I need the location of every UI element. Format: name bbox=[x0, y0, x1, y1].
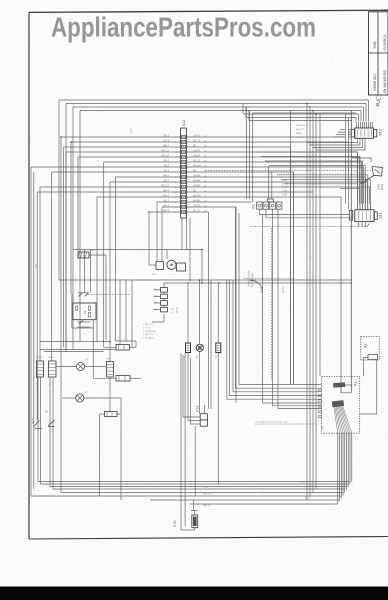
wire junction arc bbox=[250, 279, 262, 292]
svg-text:WH/BK: WH/BK bbox=[193, 180, 201, 182]
svg-text:60Hz: 60Hz bbox=[380, 183, 384, 190]
svg-text:S13: S13 bbox=[31, 419, 35, 424]
svg-text:GN 3: GN 3 bbox=[163, 169, 169, 172]
svg-text:A2: A2 bbox=[364, 344, 368, 348]
svg-text:1W 7: 1W 7 bbox=[106, 359, 112, 361]
svg-text:GN/YE: GN/YE bbox=[193, 205, 201, 207]
node junction dots bbox=[60, 103, 317, 343]
svg-text:BK/WH: BK/WH bbox=[193, 165, 201, 167]
svg-text:4 x 2: 4 x 2 bbox=[203, 486, 209, 489]
svg-text:BN/RD: BN/RD bbox=[296, 133, 303, 135]
wire mains dashed bbox=[205, 169, 371, 171]
svg-text:RD 1.5: RD 1.5 bbox=[193, 160, 201, 162]
wire X12 tail bbox=[182, 218, 190, 280]
wire left riser 4 bbox=[79, 111, 81, 342]
module A1 bbox=[321, 376, 359, 433]
valve Y1 bbox=[184, 283, 191, 359]
svg-text:WH/BK: WH/BK bbox=[193, 200, 201, 202]
wire step risers bbox=[247, 107, 357, 202]
svg-text:1 WH/BK-BN: 1 WH/BK-BN bbox=[143, 331, 156, 333]
svg-text:X 14: X 14 bbox=[196, 405, 200, 412]
wire mains corner bbox=[352, 158, 371, 162]
svg-text:230 V: 230 V bbox=[261, 287, 263, 293]
label X7 rows bbox=[143, 324, 156, 340]
wire dashed feed bbox=[244, 278, 295, 280]
wire main feed L1 bbox=[59, 279, 352, 281]
svg-text:GN 3: GN 3 bbox=[163, 164, 169, 167]
svg-text:Grundplatte Geschirrspüler unt: Grundplatte Geschirrspüler unten bbox=[256, 421, 289, 424]
svg-text:V3568 33.0: V3568 33.0 bbox=[373, 74, 377, 91]
svg-text:S11: S11 bbox=[378, 211, 383, 219]
svg-text:WH 4: WH 4 bbox=[163, 189, 170, 192]
svg-text:X12: X12 bbox=[182, 120, 186, 127]
mains plug W1 bbox=[360, 167, 385, 191]
svg-text:GN 3: GN 3 bbox=[163, 139, 169, 142]
svg-text:A1: A1 bbox=[354, 381, 358, 386]
wire S11 upper harness bbox=[257, 152, 370, 204]
svg-text:BR 4 C: BR 4 C bbox=[204, 505, 212, 508]
svg-text:05-30/90-9: 05-30/90-9 bbox=[383, 34, 387, 51]
wire S12 left stubs bbox=[334, 130, 351, 137]
svg-text:RD 1.5: RD 1.5 bbox=[162, 149, 170, 152]
svg-text:4 BK: 4 BK bbox=[282, 194, 287, 196]
svg-text:BN: BN bbox=[193, 145, 197, 147]
wire col 106 bbox=[105, 255, 107, 340]
wire main feed N bbox=[164, 282, 352, 284]
wire left rail a bbox=[40, 341, 110, 343]
svg-text:1W 3a: 1W 3a bbox=[48, 357, 55, 359]
svg-text:WH 0.75: WH 0.75 bbox=[296, 129, 305, 131]
wire S11 bottom taps bbox=[250, 111, 370, 393]
resistor R1 bbox=[104, 345, 136, 351]
svg-text:RD 1.5: RD 1.5 bbox=[162, 184, 170, 187]
svg-text:BN 2: BN 2 bbox=[164, 199, 170, 202]
black scan bar bbox=[0, 587, 388, 600]
lamp H3 bbox=[196, 280, 203, 359]
svg-text:Geräteübersicht: Geräteübersicht bbox=[248, 270, 251, 287]
svg-text:BN 2: BN 2 bbox=[164, 134, 170, 137]
svg-text:BK 4 x 2: BK 4 x 2 bbox=[204, 493, 214, 496]
svg-text:1 BN: 1 BN bbox=[282, 191, 287, 193]
connector S12 bbox=[351, 122, 382, 138]
svg-text:BN 2: BN 2 bbox=[164, 159, 170, 162]
svg-text:X 19: X 19 bbox=[173, 520, 177, 527]
wire col 136 r2 bbox=[135, 341, 137, 347]
wire S11 to A1 bbox=[341, 388, 351, 393]
wire A2 drop bbox=[363, 360, 365, 376]
terminal strip X7 bbox=[152, 283, 179, 322]
label wire colors right of X12 bbox=[193, 135, 207, 212]
svg-text:Spülmaschine: Spülmaschine bbox=[252, 272, 254, 287]
wire left riser 1 bbox=[58, 100, 60, 280]
label base plate bbox=[255, 421, 318, 425]
label misc bbox=[35, 128, 358, 430]
wire left rail b bbox=[40, 349, 116, 351]
wire X14 pass-through drops bbox=[181, 353, 195, 530]
svg-text:BN 2: BN 2 bbox=[164, 179, 170, 182]
svg-text:BK: BK bbox=[46, 409, 49, 413]
svg-text:5 WH: 5 WH bbox=[282, 187, 288, 189]
label bottom bus bbox=[203, 482, 311, 508]
wire X1 pin drops bbox=[259, 209, 352, 408]
label X1 wires bbox=[282, 180, 288, 196]
heater E1 bbox=[78, 249, 106, 258]
title block bbox=[369, 12, 388, 95]
switch S14 bbox=[46, 377, 55, 489]
svg-text:1C: 1C bbox=[310, 255, 312, 258]
svg-text:1 P G.3: 1 P G.3 bbox=[143, 327, 151, 329]
svg-text:WH/BK: WH/BK bbox=[193, 175, 201, 177]
wire staircase to A1 bbox=[227, 385, 321, 409]
svg-text:BN: BN bbox=[193, 190, 197, 192]
svg-text:4 BK: 4 BK bbox=[282, 180, 287, 182]
wire A1 ribbon bbox=[338, 433, 352, 504]
svg-text:60 Hz: 60 Hz bbox=[283, 286, 285, 293]
wire mid drop group bbox=[227, 207, 239, 399]
wire left riser 3 bbox=[72, 107, 74, 350]
resistor R2 bbox=[116, 376, 141, 382]
switch S13 bbox=[31, 377, 42, 484]
connector X12 bbox=[179, 120, 188, 218]
connector X1 bbox=[251, 199, 282, 209]
wire group X12 right harness bbox=[187, 137, 370, 409]
switch S2 bbox=[49, 361, 57, 377]
wire left rail c bbox=[44, 351, 104, 353]
svg-text:WH 4: WH 4 bbox=[163, 209, 170, 212]
wire top bus harness bbox=[59, 100, 369, 122]
motor M1 bbox=[149, 250, 186, 277]
valve Y2 bbox=[215, 283, 221, 484]
wire S12 lower fan bbox=[307, 138, 365, 150]
wire X14 left feeds bbox=[183, 351, 205, 424]
svg-text:WH 4: WH 4 bbox=[163, 174, 170, 177]
switch S1 bbox=[37, 361, 44, 377]
wire col 132 bbox=[131, 280, 133, 348]
wire col 103 bbox=[84, 250, 86, 293]
wire left col 99 bbox=[99, 414, 101, 496]
label harness note bbox=[248, 270, 286, 293]
wire col 120 bbox=[119, 280, 121, 345]
svg-text:X1: X1 bbox=[251, 205, 255, 209]
svg-text:3 x 4: 3 x 4 bbox=[300, 482, 306, 484]
svg-text:K1: K1 bbox=[83, 310, 87, 314]
svg-text:2 BN 0.75: 2 BN 0.75 bbox=[143, 324, 154, 326]
svg-text:GN/YE: GN/YE bbox=[193, 135, 201, 137]
svg-text:BU 2.5: BU 2.5 bbox=[193, 210, 201, 212]
wire loop to motor bbox=[73, 250, 202, 284]
wire left col 33 bbox=[33, 172, 35, 489]
wire A1 to A2 right bbox=[360, 360, 377, 414]
lamp H1 bbox=[56, 362, 107, 370]
svg-text:RD 1.5: RD 1.5 bbox=[193, 140, 201, 142]
svg-text:1W 30: 1W 30 bbox=[36, 357, 43, 359]
svg-text:2 x 6: 2 x 6 bbox=[305, 498, 311, 500]
svg-text:WH 4: WH 4 bbox=[163, 144, 170, 147]
svg-text:GN/YE: GN/YE bbox=[193, 155, 201, 157]
wire A1 top stub bbox=[346, 384, 353, 386]
lamp H2 bbox=[62, 394, 121, 500]
svg-text:GY/BU: GY/BU bbox=[296, 137, 303, 139]
label switch row bbox=[36, 357, 112, 394]
svg-text:1 PK-Auge: 1 PK-Auge bbox=[143, 337, 154, 340]
svg-text:EB 164/185-E/0: EB 164/185-E/0 bbox=[383, 70, 387, 93]
UL listing mark bbox=[374, 95, 384, 108]
wire left riser 2 bbox=[65, 104, 67, 352]
connector X19 bbox=[173, 500, 198, 530]
wire col 126 bbox=[125, 280, 127, 341]
label wire colors left of X12 bbox=[162, 134, 170, 212]
module A2 bbox=[361, 337, 379, 360]
svg-text:BK/GN 0.75: BK/GN 0.75 bbox=[296, 125, 308, 127]
wire relay drop to R2 bbox=[92, 328, 94, 378]
svg-text:GN/YE: GN/YE bbox=[193, 150, 201, 152]
connector S11 bbox=[349, 204, 382, 222]
resistor R3 bbox=[100, 412, 121, 417]
svg-text:24 V: 24 V bbox=[152, 273, 157, 276]
wire group X12 left harness bbox=[31, 137, 181, 496]
svg-text:36 75: 36 75 bbox=[177, 307, 179, 313]
svg-text:BK/WH: BK/WH bbox=[193, 195, 201, 197]
svg-text:X 75: X 75 bbox=[172, 307, 175, 313]
connector X14 bbox=[196, 405, 208, 426]
svg-text:AppliancePartsPros.com: AppliancePartsPros.com bbox=[51, 12, 316, 43]
svg-text:7/95: 7/95 bbox=[372, 40, 377, 49]
svg-text:a6 30: a6 30 bbox=[131, 128, 133, 134]
wire X1 top feeds bbox=[211, 166, 272, 409]
svg-text:WH/BK: WH/BK bbox=[193, 185, 201, 187]
relay K1 bbox=[72, 293, 130, 336]
label X12 pin numbers bbox=[174, 137, 191, 214]
label S12 wires bbox=[296, 125, 308, 139]
wire right riser group bbox=[291, 104, 349, 501]
svg-text:A 30: A 30 bbox=[35, 263, 38, 268]
wire bottom bus harness bbox=[31, 482, 350, 505]
svg-text:BN: BN bbox=[193, 170, 197, 172]
svg-text:BU 6: BU 6 bbox=[164, 194, 170, 197]
switch S3 bbox=[107, 362, 114, 412]
svg-text:WH 4: WH 4 bbox=[163, 204, 170, 207]
svg-text:230V: 230V bbox=[377, 184, 381, 190]
wire A1 left pin stubs bbox=[319, 389, 322, 417]
svg-text:S12: S12 bbox=[378, 128, 383, 136]
svg-text:RD 1.5: RD 1.5 bbox=[162, 154, 170, 157]
svg-text:2 BN 0.75: 2 BN 0.75 bbox=[143, 334, 154, 336]
